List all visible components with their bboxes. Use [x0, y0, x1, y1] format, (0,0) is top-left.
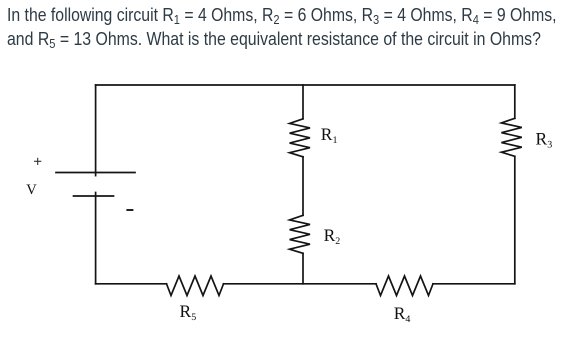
resistor R4 [376, 276, 433, 296]
resistor R1 [290, 119, 310, 157]
wire bottom-middle segment [224, 283, 377, 285]
label + (plus sign) [35, 158, 41, 164]
wire left-upper (to battery + plate) [95, 85, 97, 173]
svg-text:R2: R2 [324, 225, 341, 247]
resistor R3 [501, 118, 521, 156]
wire stub below positive plate [95, 173, 97, 176]
wire middle-lower [302, 253, 304, 283]
wire right-lower [514, 156, 516, 283]
svg-text:R4: R4 [394, 303, 411, 325]
svg-text:R1: R1 [321, 124, 338, 146]
battery V : negative plate [74, 195, 114, 197]
question text [6, 0, 8, 1]
label - (minus sign) [127, 209, 132, 211]
svg-text:R5: R5 [180, 301, 197, 323]
wire right-upper [514, 85, 516, 118]
wire middle-between R1 and R2 [302, 157, 304, 216]
resistor R5 [167, 276, 224, 296]
resistor R2 [290, 215, 310, 253]
wire bottom-right segment [433, 283, 515, 285]
svg-text:V: V [26, 182, 37, 198]
wire bottom-left segment [96, 283, 167, 285]
battery V : positive plate [56, 172, 135, 174]
wire middle-upper [302, 85, 304, 119]
svg-text:R3: R3 [536, 129, 553, 151]
wire left-lower (battery to bottom rail) [95, 193, 97, 284]
wire top [96, 84, 515, 86]
